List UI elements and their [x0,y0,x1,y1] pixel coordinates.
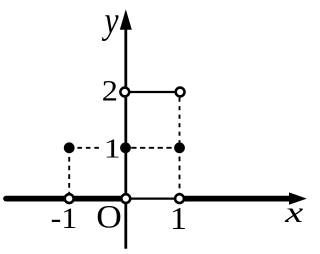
dashed vertical x=1 from dot at y=1 down to y=0 [179,157,181,196]
filled dot at (0,1) [120,142,131,153]
axis label y [102,0,119,42]
graph segment y=2 for 0<x<1 [125,91,180,93]
x-axis thick segment right (from x=1 to arrowhead) [180,196,293,202]
axis label x [284,196,303,228]
svg-text:2: 2 [102,74,118,107]
open circle at origin (0,0) [121,194,130,203]
filled dot at (-1,1) [64,142,75,153]
x-axis arrowhead [289,192,307,204]
open circle at (0,2) [120,88,129,97]
dashed vertical x=1 from y=2 down to dot at y=1 [179,98,181,144]
tick label -1 on x-axis [51,201,78,235]
dashed horizontal y=1 from x=0 to x=1 [131,147,171,149]
svg-text:y: y [102,0,119,42]
open circle at (1,0) [175,194,184,203]
tick label 1 on x-axis [170,202,187,236]
dashed horizontal y=1 from x=-1 to label 1 [77,147,99,149]
filled dot at (1,1) [174,142,185,153]
y-axis line [124,28,127,249]
svg-text:1: 1 [104,133,121,164]
dashed vertical x=-1 from y=1 down to y=0 [68,157,70,196]
tick label 2 on y-axis [102,74,118,107]
y-axis arrowhead [120,9,132,30]
svg-text:O: O [96,200,122,236]
open circle at (1,2) [176,88,185,97]
x-axis thick segment left (from left edge to origin) [6,196,126,202]
graph segment y=0 for 0<x<1 [126,198,180,200]
tick label 1 on y-axis [104,133,121,164]
svg-text:-1: -1 [51,201,78,235]
svg-text:1: 1 [170,202,187,236]
origin label O [96,200,122,236]
open circle at (-1,0) [65,194,74,203]
svg-text:x: x [284,196,303,228]
